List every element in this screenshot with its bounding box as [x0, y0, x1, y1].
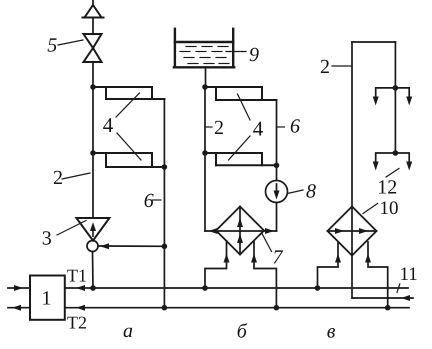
wire leg right scheme v: [368, 242, 388, 308]
heat point 7 diamond: [216, 207, 264, 255]
svg-text:5: 5: [47, 34, 57, 56]
svg-text:4: 4: [103, 113, 114, 137]
svg-text:T1: T1: [67, 266, 87, 286]
label 2 dash scheme b: [205, 126, 212, 128]
wire vent to valve: [92, 18, 94, 35]
wire boiler inlet left top: [8, 287, 30, 289]
svg-text:4: 4: [253, 116, 264, 140]
wire valve to riser a: [92, 62, 94, 87]
label 4 leaders scheme b: [238, 94, 251, 120]
junction node drop a bottom radiator: [162, 164, 168, 170]
tank water dashes: [180, 47, 229, 64]
radiator 4 top scheme b: [205, 87, 277, 100]
arrow distributor 2 right down: [406, 162, 412, 171]
pump 8 circle: [266, 181, 288, 203]
label 3 leader: [57, 221, 86, 236]
wire elevator down to T1: [92, 252, 95, 289]
label 2 dash scheme v: [332, 65, 351, 67]
junction node distributor 1: [393, 85, 399, 91]
arrow diamond 7 internal up 1: [237, 218, 243, 227]
junction node drop a T2: [162, 305, 168, 311]
wire drop scheme b upper: [276, 100, 278, 181]
wire drop scheme b lower: [276, 203, 278, 232]
junction node riser b bottom radiator: [202, 150, 208, 156]
radiator 4 top scheme a: [93, 87, 164, 99]
T2 return main: [65, 307, 409, 309]
expansion tank 9: [174, 29, 234, 68]
wire stand pipe scheme v: [351, 42, 353, 298]
arrow diamond 10 internal right 1: [335, 228, 344, 234]
junction node leg b T1: [202, 285, 208, 291]
arrow boiler outlet: [12, 305, 21, 311]
wire riser scheme a: [92, 87, 94, 218]
arrow supply 11 left: [401, 295, 410, 301]
arrow distributor 1 left down: [373, 97, 379, 106]
heat point 10 diamond: [328, 207, 377, 256]
label 11 leader: [397, 284, 400, 293]
svg-text:2: 2: [53, 167, 63, 189]
svg-text:8: 8: [306, 180, 316, 202]
wire drop line scheme a: [163, 99, 165, 308]
label 5 leader: [58, 40, 83, 45]
svg-text:12: 12: [377, 177, 397, 199]
arrow elevator internal up: [90, 222, 96, 237]
distributor 2 scheme v: [376, 153, 410, 164]
junction node riser b top radiator: [202, 84, 208, 90]
svg-text:в: в: [327, 321, 336, 343]
arrow distributor 2 left down: [373, 162, 379, 171]
radiator 4 bottom scheme b: [205, 153, 277, 165]
label 8 leader: [288, 190, 304, 194]
junction node drop a mix line: [162, 244, 168, 250]
svg-text:2: 2: [320, 56, 330, 78]
arrow diamond 7 left out: [209, 228, 218, 234]
diamond 10 internal horizontal: [328, 230, 377, 232]
label 4 leaders scheme a: [116, 93, 140, 117]
wire top header scheme v: [352, 41, 395, 43]
svg-text:1: 1: [42, 288, 52, 310]
arrow leg v left up: [335, 254, 341, 263]
wire leg right scheme b: [254, 241, 276, 308]
arrow leg b left up: [224, 254, 230, 263]
label 2 leader scheme a: [62, 173, 90, 179]
wire through diamond 7: [205, 230, 277, 232]
arrow diamond 7 internal up 2: [237, 234, 243, 243]
label 10 leader: [363, 204, 378, 214]
arrow diamond 10 internal right 2: [359, 228, 368, 234]
wire boiler outlet left bottom: [8, 307, 30, 309]
arrow T1 into boiler: [76, 285, 85, 291]
arrow distributor 1 right down: [406, 97, 412, 106]
junction node leg v T1: [315, 285, 321, 291]
valve 5: [84, 34, 102, 48]
junction node leg v T2: [385, 305, 391, 311]
wire leg left scheme b: [205, 241, 227, 288]
svg-text:11: 11: [400, 264, 418, 285]
svg-text:9: 9: [249, 44, 259, 66]
diamond 7 internal vertical: [239, 207, 241, 255]
svg-text:6: 6: [290, 116, 300, 138]
elevator nozzle circle: [87, 241, 98, 252]
arrow boiler inlet: [14, 285, 23, 291]
label 9 leader: [226, 51, 246, 53]
junction node leg b T2: [274, 305, 280, 311]
distributor 1 scheme v: [376, 88, 410, 99]
svg-text:7: 7: [273, 247, 284, 269]
svg-text:а: а: [123, 320, 133, 342]
junction node riser a T1: [90, 285, 96, 291]
junction node riser a top radiator: [90, 84, 96, 90]
junction node drop b bottom radiator: [274, 163, 280, 169]
label 12 leader: [386, 169, 399, 178]
svg-text:T2: T2: [67, 312, 87, 332]
T1 supply main: [65, 287, 408, 289]
radiator 4 bottom scheme a: [93, 153, 164, 167]
svg-text:6: 6: [144, 190, 154, 212]
junction node distributor 2: [393, 150, 399, 156]
arrow diamond 7 right out: [265, 228, 274, 234]
wire vent stub top: [92, 0, 94, 5]
arrow leg b right up: [251, 254, 257, 263]
junction node riser a bottom radiator: [90, 150, 96, 156]
svg-text:10: 10: [380, 198, 399, 219]
label 6 dash scheme b: [277, 126, 285, 128]
arrow pump 8 down: [274, 191, 280, 200]
elevator 3 triangle: [76, 218, 109, 241]
arrow T2 into boiler: [76, 305, 85, 311]
arrow elevator suction: [100, 243, 109, 249]
wire tank outlet: [205, 67, 207, 87]
label 7 leader: [262, 234, 272, 252]
pump 8 arrow: [276, 184, 278, 195]
wire elevator mix line: [98, 245, 164, 247]
label 6 dash scheme a: [153, 199, 162, 201]
svg-text:2: 2: [214, 117, 224, 139]
svg-text:б: б: [237, 321, 248, 343]
wire right downfeed scheme v: [394, 42, 396, 153]
wire leg left scheme v: [318, 242, 339, 288]
air vent triangle scheme a: [85, 5, 102, 18]
boiler 1 box: [30, 276, 65, 320]
wire supply line 11: [352, 297, 413, 299]
wire riser scheme b: [204, 87, 206, 231]
svg-text:3: 3: [42, 228, 52, 250]
arrow leg v right up: [365, 254, 371, 263]
